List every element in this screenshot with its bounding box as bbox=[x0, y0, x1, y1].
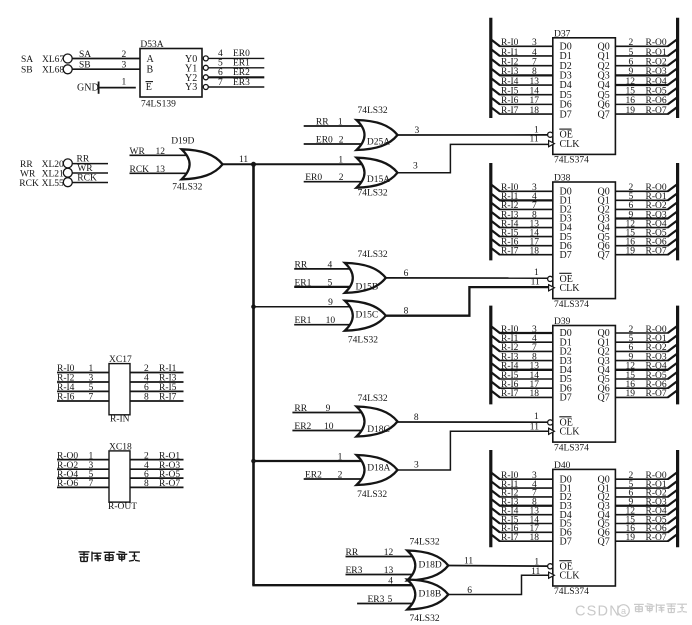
connector pin XL67 (SA) bbox=[21, 54, 72, 65]
svg-text:12: 12 bbox=[156, 147, 166, 157]
wire D38.Q4 net R-O4 pin 12 bbox=[615, 219, 677, 229]
bus output bar right of D38 bbox=[676, 163, 679, 260]
wire D37.D5 net R-I5 pin 14 bbox=[491, 87, 553, 97]
svg-text:3: 3 bbox=[122, 61, 127, 71]
svg-text:13: 13 bbox=[530, 77, 540, 87]
wire D39.Q7 net R-O7 pin 19 bbox=[615, 389, 677, 399]
title text 寄存器单元 (register unit) bbox=[79, 552, 140, 562]
svg-text:D7: D7 bbox=[560, 250, 572, 261]
svg-text:R-O4: R-O4 bbox=[646, 77, 667, 87]
svg-text:11: 11 bbox=[464, 557, 473, 567]
wire D37.D1 net R-I1 pin 4 bbox=[491, 48, 553, 58]
wire RR to D18D pin 12 bbox=[346, 548, 416, 558]
svg-text:GND: GND bbox=[77, 83, 99, 94]
output bubble D53A.5 bbox=[203, 65, 208, 70]
svg-text:11: 11 bbox=[531, 278, 540, 288]
svg-text:R-I1: R-I1 bbox=[501, 48, 519, 58]
wire D38.D1 net R-I1 pin 4 bbox=[491, 192, 553, 202]
wire ER3 to D18D pin 13 bbox=[346, 566, 416, 576]
svg-text:Q7: Q7 bbox=[598, 250, 610, 261]
svg-text:SA: SA bbox=[79, 50, 91, 60]
wire D15B pin 6 to D38 OE pin 1 bbox=[386, 268, 548, 279]
or-gate D18C (74LS32) bbox=[357, 394, 398, 437]
output-enable bubble D37.OE pin 1 bbox=[548, 132, 553, 137]
svg-text:D15B: D15B bbox=[356, 283, 379, 293]
wire ER0 to D15A pin 2 bbox=[304, 173, 365, 183]
wire D38.D6 net R-I6 pin 17 bbox=[491, 237, 553, 247]
wire D37.D6 net R-I6 pin 17 bbox=[491, 96, 553, 106]
svg-text:74LS374: 74LS374 bbox=[554, 300, 589, 310]
svg-text:WR: WR bbox=[77, 164, 93, 174]
wire D18D pin 11 to D40 OE pin 1 bbox=[448, 557, 547, 568]
svg-text:7: 7 bbox=[89, 479, 94, 489]
svg-text:Q7: Q7 bbox=[598, 109, 610, 120]
wire D39.D0 net R-I0 pin 3 bbox=[491, 325, 553, 335]
wire ER0 to D25A pin 2 bbox=[304, 136, 365, 146]
svg-text:13: 13 bbox=[156, 165, 166, 175]
wire D18A pin 3 to D39 CLK pin 11 bbox=[398, 423, 553, 471]
wire XC17 left pin 3 net R-I2 bbox=[57, 374, 109, 384]
svg-text:Y3: Y3 bbox=[185, 82, 197, 93]
svg-text:R-O7: R-O7 bbox=[646, 247, 667, 257]
watermark CSDN @小李独爱秋 bbox=[575, 604, 687, 620]
wire D39.D4 net R-I4 pin 13 bbox=[491, 362, 553, 372]
wire D40.Q5 net R-O5 pin 15 bbox=[615, 515, 677, 525]
wire D37.Q2 net R-O2 pin 6 bbox=[615, 57, 677, 67]
svg-text:R-I3: R-I3 bbox=[501, 67, 519, 77]
svg-text:R-I7: R-I7 bbox=[501, 247, 519, 257]
svg-text:R-I2: R-I2 bbox=[501, 57, 519, 67]
svg-text:R-O0: R-O0 bbox=[57, 451, 78, 461]
svg-text:R-I0: R-I0 bbox=[57, 364, 75, 374]
wire D40.D0 net R-I0 pin 3 bbox=[491, 471, 553, 481]
wire D37.Q4 net R-O4 pin 12 bbox=[615, 77, 677, 87]
wire bus branch to D15C pin 9 bbox=[254, 298, 353, 308]
svg-text:9: 9 bbox=[328, 298, 333, 308]
bus input bar left of D40 bbox=[489, 450, 492, 547]
wire D39.D1 net R-I1 pin 4 bbox=[491, 334, 553, 344]
wire ER2 to D18C pin 10 bbox=[292, 422, 364, 432]
svg-text:CLK: CLK bbox=[560, 571, 581, 582]
wire ER1 to D15B pin 5 bbox=[294, 278, 353, 288]
svg-text:12: 12 bbox=[626, 77, 636, 87]
svg-text:9: 9 bbox=[326, 404, 331, 414]
svg-text:RR: RR bbox=[295, 260, 308, 270]
connector pin XL68 (SB) bbox=[21, 65, 72, 76]
svg-text:XL21: XL21 bbox=[42, 170, 64, 180]
wire RR to D15B pin 4 bbox=[294, 260, 353, 270]
svg-text:1: 1 bbox=[122, 77, 127, 87]
svg-text:RR: RR bbox=[20, 160, 33, 170]
svg-text:D7: D7 bbox=[560, 536, 572, 547]
output bubble D53A.6 bbox=[203, 75, 208, 80]
wire D37.Q5 net R-O5 pin 15 bbox=[615, 87, 677, 97]
svg-text:R-O5: R-O5 bbox=[646, 87, 667, 97]
svg-text:1: 1 bbox=[338, 155, 343, 165]
svg-text:R-O7: R-O7 bbox=[646, 389, 667, 399]
svg-text:D19D: D19D bbox=[171, 137, 194, 147]
svg-text:R-I1: R-I1 bbox=[159, 364, 177, 374]
svg-text:R-I7: R-I7 bbox=[501, 106, 519, 116]
connector pin XL55 (RCK) bbox=[19, 178, 72, 189]
svg-text:D18B: D18B bbox=[419, 589, 442, 599]
wire RCK to D19D pin 13 bbox=[130, 165, 191, 175]
svg-text:D53A: D53A bbox=[140, 40, 163, 50]
svg-text:ER2: ER2 bbox=[233, 68, 250, 78]
clock triangle D39.CLK pin 11 bbox=[549, 428, 555, 434]
svg-text:74LS32: 74LS32 bbox=[357, 490, 387, 500]
svg-text:R-I4: R-I4 bbox=[57, 383, 75, 393]
svg-text:11: 11 bbox=[530, 423, 539, 433]
svg-text:3: 3 bbox=[532, 38, 537, 48]
svg-text:XC17: XC17 bbox=[109, 355, 132, 365]
svg-text:8: 8 bbox=[404, 307, 409, 317]
bus input bar left of D39 bbox=[489, 306, 492, 405]
svg-text:18: 18 bbox=[530, 106, 540, 116]
wire XC18 right pin 2 net R-O1 bbox=[130, 451, 184, 461]
svg-text:CLK: CLK bbox=[560, 139, 581, 150]
wire D39.Q3 net R-O3 pin 9 bbox=[615, 352, 677, 362]
wire XC17 right pin 6 net R-I5 bbox=[130, 383, 184, 393]
node junction D19D output / bus bbox=[251, 162, 256, 167]
svg-text:9: 9 bbox=[629, 67, 634, 77]
clock triangle D37.CLK pin 11 bbox=[549, 141, 555, 147]
output-enable bubble D40.OE pin 1 bbox=[548, 564, 553, 569]
svg-text:2: 2 bbox=[339, 136, 344, 146]
wire ER2 (pin 6) bbox=[208, 68, 264, 78]
bus output bar right of D40 bbox=[676, 450, 679, 547]
wire XC17 right pin 2 net R-I1 bbox=[130, 364, 184, 374]
svg-text:CLK: CLK bbox=[560, 283, 581, 294]
wire D40.Q1 net R-O1 pin 5 bbox=[615, 480, 677, 490]
svg-text:D15C: D15C bbox=[356, 311, 379, 321]
wire bus bottom run to D18B pin 4 bbox=[252, 577, 415, 587]
svg-text:2: 2 bbox=[144, 364, 149, 374]
svg-text:1: 1 bbox=[338, 452, 343, 462]
svg-text:D7: D7 bbox=[560, 393, 572, 404]
svg-text:74LS32: 74LS32 bbox=[348, 335, 378, 345]
wire D40.Q2 net R-O2 pin 6 bbox=[615, 489, 677, 499]
wire D39.Q5 net R-O5 pin 15 bbox=[615, 371, 677, 381]
svg-text:5: 5 bbox=[388, 595, 393, 605]
svg-text:5: 5 bbox=[218, 59, 223, 69]
or-gate D15B (74LS32) bbox=[345, 250, 388, 293]
svg-text:R-O0: R-O0 bbox=[646, 38, 667, 48]
svg-text:19: 19 bbox=[626, 247, 636, 257]
svg-text:16: 16 bbox=[626, 96, 636, 106]
wire D40.D6 net R-I6 pin 17 bbox=[491, 524, 553, 534]
svg-text:A: A bbox=[147, 54, 155, 65]
svg-text:D38: D38 bbox=[554, 174, 571, 184]
wire D38.D5 net R-I5 pin 14 bbox=[491, 228, 553, 238]
svg-text:17: 17 bbox=[530, 96, 540, 106]
svg-text:D40: D40 bbox=[554, 461, 571, 471]
svg-text:R-IN: R-IN bbox=[110, 415, 130, 425]
wire D37.Q0 net R-O0 pin 2 bbox=[615, 38, 677, 48]
wire D39.D7 net R-I7 pin 18 bbox=[491, 389, 553, 399]
wire XC18 left pin 3 net R-O2 bbox=[57, 461, 109, 471]
svg-text:5: 5 bbox=[328, 278, 333, 288]
wire D38.Q2 net R-O2 pin 6 bbox=[615, 201, 677, 211]
svg-text:12: 12 bbox=[384, 548, 394, 558]
wire D38.D0 net R-I0 pin 3 bbox=[491, 183, 553, 193]
svg-text:XL67: XL67 bbox=[42, 55, 64, 65]
wire D40.D4 net R-I4 pin 13 bbox=[491, 506, 553, 516]
or-gate D19D (74LS32) bbox=[171, 137, 222, 193]
wire ER1 (pin 5) bbox=[208, 59, 264, 69]
svg-text:19: 19 bbox=[626, 533, 636, 543]
wire XC18 right pin 6 net R-O5 bbox=[130, 470, 184, 480]
wire D38.Q0 net R-O0 pin 2 bbox=[615, 183, 677, 193]
svg-text:R-I7: R-I7 bbox=[159, 393, 177, 403]
wire D40.Q6 net R-O6 pin 16 bbox=[615, 524, 677, 534]
wire D40.Q4 net R-O4 pin 12 bbox=[615, 506, 677, 516]
svg-text:74LS32: 74LS32 bbox=[358, 106, 388, 116]
wire SB (pin 3 to D53A.B) bbox=[72, 61, 140, 71]
svg-text:R-I4: R-I4 bbox=[501, 77, 519, 87]
svg-text:10: 10 bbox=[326, 316, 336, 326]
wire D37.D7 net R-I7 pin 18 bbox=[491, 106, 553, 116]
svg-text:4: 4 bbox=[328, 260, 333, 270]
svg-text:6: 6 bbox=[144, 383, 149, 393]
or-gate D18A (74LS32) bbox=[357, 455, 398, 500]
connector XC18 bbox=[108, 442, 137, 512]
svg-text:Q7: Q7 bbox=[598, 393, 610, 404]
svg-text:D18C: D18C bbox=[367, 425, 390, 435]
wire RR to D25A pin 1 bbox=[304, 117, 365, 127]
svg-text:CLK: CLK bbox=[560, 427, 581, 438]
wire D39.D5 net R-I5 pin 14 bbox=[491, 371, 553, 381]
svg-text:R-O1: R-O1 bbox=[646, 48, 667, 58]
svg-text:R-O2: R-O2 bbox=[646, 57, 667, 67]
wire D37.D0 net R-I0 pin 3 bbox=[491, 38, 553, 48]
wire WR stub bbox=[72, 164, 108, 174]
wire vertical bus from D19D output bbox=[252, 164, 255, 585]
wire D39.Q4 net R-O4 pin 12 bbox=[615, 362, 677, 372]
bus input bar left of D38 bbox=[489, 163, 492, 260]
or-gate D18B (74LS32) bbox=[407, 580, 448, 625]
wire D18B pin 6 to D40 CLK pin 11 bbox=[448, 567, 553, 596]
svg-text:R-O7: R-O7 bbox=[646, 533, 667, 543]
svg-text:5: 5 bbox=[89, 383, 94, 393]
wire bus branch to D18A pin 1 bbox=[254, 452, 365, 462]
wire D40.Q0 net R-O0 pin 2 bbox=[615, 471, 677, 481]
svg-text:B: B bbox=[147, 64, 154, 75]
svg-text:7: 7 bbox=[218, 78, 223, 88]
svg-text:2: 2 bbox=[629, 38, 634, 48]
wire RR stub bbox=[72, 155, 108, 165]
connector pin XL20 (RR) bbox=[20, 159, 72, 170]
svg-text:ER1: ER1 bbox=[295, 316, 312, 326]
svg-text:18: 18 bbox=[530, 533, 540, 543]
wire D19D output pin 11 to node/bus and D15A pin 1 bbox=[223, 155, 365, 166]
svg-text:ER3: ER3 bbox=[233, 78, 250, 88]
svg-text:ER2: ER2 bbox=[294, 422, 311, 432]
wire D37.Q1 net R-O1 pin 5 bbox=[615, 48, 677, 58]
svg-text:6: 6 bbox=[218, 68, 223, 78]
svg-text:15: 15 bbox=[626, 87, 636, 97]
wire D40.Q7 net R-O7 pin 19 bbox=[615, 533, 677, 543]
or-gate D15A (74LS32) bbox=[357, 158, 398, 199]
wire D25A pin 3 to D37 OE pin 1 bbox=[398, 125, 548, 136]
connector pin XL21 (WR) bbox=[20, 168, 72, 179]
svg-text:2: 2 bbox=[339, 173, 344, 183]
wire ER2 to D18A pin 2 bbox=[304, 471, 365, 481]
svg-text:1: 1 bbox=[534, 557, 539, 567]
svg-text:74LS374: 74LS374 bbox=[554, 156, 589, 166]
svg-text:D18D: D18D bbox=[419, 560, 442, 570]
svg-text:R-I0: R-I0 bbox=[501, 38, 519, 48]
output bubble D53A.7 bbox=[203, 85, 208, 90]
svg-text:7: 7 bbox=[532, 57, 537, 67]
svg-text:ER3: ER3 bbox=[346, 566, 363, 576]
svg-text:WR: WR bbox=[20, 170, 36, 180]
svg-text:3: 3 bbox=[414, 461, 419, 471]
svg-text:10: 10 bbox=[324, 422, 334, 432]
svg-text:RR: RR bbox=[77, 155, 90, 165]
svg-text:SB: SB bbox=[79, 61, 91, 71]
svg-text:18: 18 bbox=[530, 389, 540, 399]
wire XC18 left pin 1 net R-O0 bbox=[57, 451, 109, 461]
wire D37.Q3 net R-O3 pin 9 bbox=[615, 67, 677, 77]
svg-text:11: 11 bbox=[531, 567, 540, 577]
wire RCK stub bbox=[72, 174, 108, 184]
wire D38.Q3 net R-O3 pin 9 bbox=[615, 210, 677, 220]
svg-text:R-O7: R-O7 bbox=[159, 479, 180, 489]
svg-text:74LS32: 74LS32 bbox=[358, 188, 388, 198]
svg-text:ER0: ER0 bbox=[305, 173, 322, 183]
svg-text:R-O3: R-O3 bbox=[646, 67, 667, 77]
wire D39.D2 net R-I2 pin 7 bbox=[491, 343, 553, 353]
svg-text:XL68: XL68 bbox=[42, 66, 64, 76]
wire XC18 right pin 4 net R-O3 bbox=[130, 461, 184, 471]
wire D39.Q0 net R-O0 pin 2 bbox=[615, 325, 677, 335]
wire ER0 (pin 4) bbox=[208, 49, 264, 59]
svg-text:XL55: XL55 bbox=[42, 179, 64, 189]
svg-text:8: 8 bbox=[144, 479, 149, 489]
wire XC17 left pin 5 net R-I4 bbox=[57, 383, 109, 393]
svg-text:ER1: ER1 bbox=[233, 59, 250, 69]
svg-text:74LS32: 74LS32 bbox=[358, 394, 388, 404]
register D38 (74LS374) bbox=[553, 174, 616, 310]
wire D40.D5 net R-I5 pin 14 bbox=[491, 515, 553, 525]
svg-text:R-O1: R-O1 bbox=[159, 451, 180, 461]
svg-text:ER1: ER1 bbox=[295, 278, 312, 288]
wire XC18 right pin 8 net R-O7 bbox=[130, 479, 184, 489]
svg-text:R-I6: R-I6 bbox=[57, 393, 75, 403]
wire D39.Q6 net R-O6 pin 16 bbox=[615, 380, 677, 390]
svg-text:R-OUT: R-OUT bbox=[108, 502, 137, 512]
svg-text:Q7: Q7 bbox=[598, 536, 610, 547]
svg-text:74LS32: 74LS32 bbox=[358, 250, 388, 260]
wire D40.D3 net R-I3 pin 8 bbox=[491, 498, 553, 508]
svg-text:13: 13 bbox=[384, 566, 394, 576]
svg-text:74LS374: 74LS374 bbox=[554, 587, 589, 597]
svg-text:a: a bbox=[621, 606, 626, 616]
svg-text:6: 6 bbox=[467, 586, 472, 596]
wire RR to D18C pin 9 bbox=[292, 404, 364, 414]
svg-text:ER2: ER2 bbox=[305, 471, 322, 481]
svg-text:74LS374: 74LS374 bbox=[554, 443, 589, 453]
bus output bar right of D37 bbox=[676, 18, 679, 118]
register D37 (74LS374) bbox=[553, 29, 616, 165]
wire D39.D3 net R-I3 pin 8 bbox=[491, 352, 553, 362]
wire XC17 right pin 8 net R-I7 bbox=[130, 393, 184, 403]
svg-text:4: 4 bbox=[532, 48, 537, 58]
register D39 (74LS374) bbox=[553, 317, 616, 453]
wire D38.D2 net R-I2 pin 7 bbox=[491, 201, 553, 211]
svg-text:SB: SB bbox=[21, 66, 33, 76]
bus input bar left of D37 bbox=[489, 18, 492, 118]
wire ER1 to D15C pin 10 bbox=[294, 316, 353, 326]
bus output bar right of D39 bbox=[676, 306, 679, 405]
wire D39.Q1 net R-O1 pin 5 bbox=[615, 334, 677, 344]
svg-text:3: 3 bbox=[415, 126, 420, 136]
svg-text:RCK: RCK bbox=[19, 179, 39, 189]
wire D39.D6 net R-I6 pin 17 bbox=[491, 380, 553, 390]
or-gate D25A (74LS32) bbox=[357, 106, 398, 150]
svg-text:R-I6: R-I6 bbox=[501, 96, 519, 106]
svg-text:RR: RR bbox=[294, 404, 307, 414]
svg-text:11: 11 bbox=[239, 155, 248, 165]
wire ER3 (pin 7) bbox=[208, 78, 264, 88]
decoder D53A (74LS139) bbox=[140, 40, 202, 109]
ground GND bbox=[77, 82, 99, 94]
wire D18C pin 8 to D39 OE pin 1 bbox=[398, 412, 548, 423]
wire D40.Q3 net R-O3 pin 9 bbox=[615, 498, 677, 508]
node junction to D18A bbox=[251, 459, 256, 464]
svg-text:D15A: D15A bbox=[367, 175, 390, 185]
svg-text:4: 4 bbox=[388, 577, 393, 587]
svg-text:2: 2 bbox=[122, 50, 127, 60]
wire D40.D7 net R-I7 pin 18 bbox=[491, 533, 553, 543]
svg-text:14: 14 bbox=[530, 87, 540, 97]
svg-text:D7: D7 bbox=[560, 109, 572, 120]
svg-text:R-I5: R-I5 bbox=[501, 87, 519, 97]
wire D39.Q2 net R-O2 pin 6 bbox=[615, 343, 677, 353]
svg-text:RCK: RCK bbox=[77, 174, 97, 184]
svg-text:6: 6 bbox=[629, 57, 634, 67]
svg-text:6: 6 bbox=[404, 269, 409, 279]
output bubble D53A.4 bbox=[203, 56, 208, 61]
wire D15A pin 3 to D37 CLK pin 11 bbox=[398, 135, 553, 173]
wire D38.D3 net R-I3 pin 8 bbox=[491, 210, 553, 220]
clock triangle D40.CLK pin 11 bbox=[549, 572, 555, 578]
svg-text:2: 2 bbox=[338, 471, 343, 481]
wire XC18 left pin 5 net R-O4 bbox=[57, 470, 109, 480]
svg-text:D37: D37 bbox=[554, 29, 571, 39]
wire SA (pin 2 to D53A.A) bbox=[72, 50, 140, 60]
svg-text:ER0: ER0 bbox=[316, 136, 333, 146]
wire XC18 left pin 7 net R-O6 bbox=[57, 479, 109, 489]
node junction to D15C bbox=[251, 304, 256, 309]
wire XC17 left pin 7 net R-I6 bbox=[57, 393, 109, 403]
clock triangle D38.CLK pin 11 bbox=[549, 285, 555, 291]
wire D38.D7 net R-I7 pin 18 bbox=[491, 247, 553, 257]
wire GND (pin 1 to D53A.E) bbox=[99, 77, 136, 87]
svg-text:D25A: D25A bbox=[367, 138, 390, 148]
wire D38.D4 net R-I4 pin 13 bbox=[491, 219, 553, 229]
svg-text:R-I7: R-I7 bbox=[501, 533, 519, 543]
svg-text:WR: WR bbox=[130, 147, 146, 157]
svg-text:1: 1 bbox=[534, 412, 539, 422]
svg-text:ER3: ER3 bbox=[368, 595, 385, 605]
svg-text:1: 1 bbox=[89, 451, 94, 461]
svg-text:7: 7 bbox=[89, 393, 94, 403]
wire D38.Q1 net R-O1 pin 5 bbox=[615, 192, 677, 202]
wire ER3 to D18B pin 5 bbox=[357, 595, 415, 605]
register D40 (74LS374) bbox=[553, 461, 616, 597]
